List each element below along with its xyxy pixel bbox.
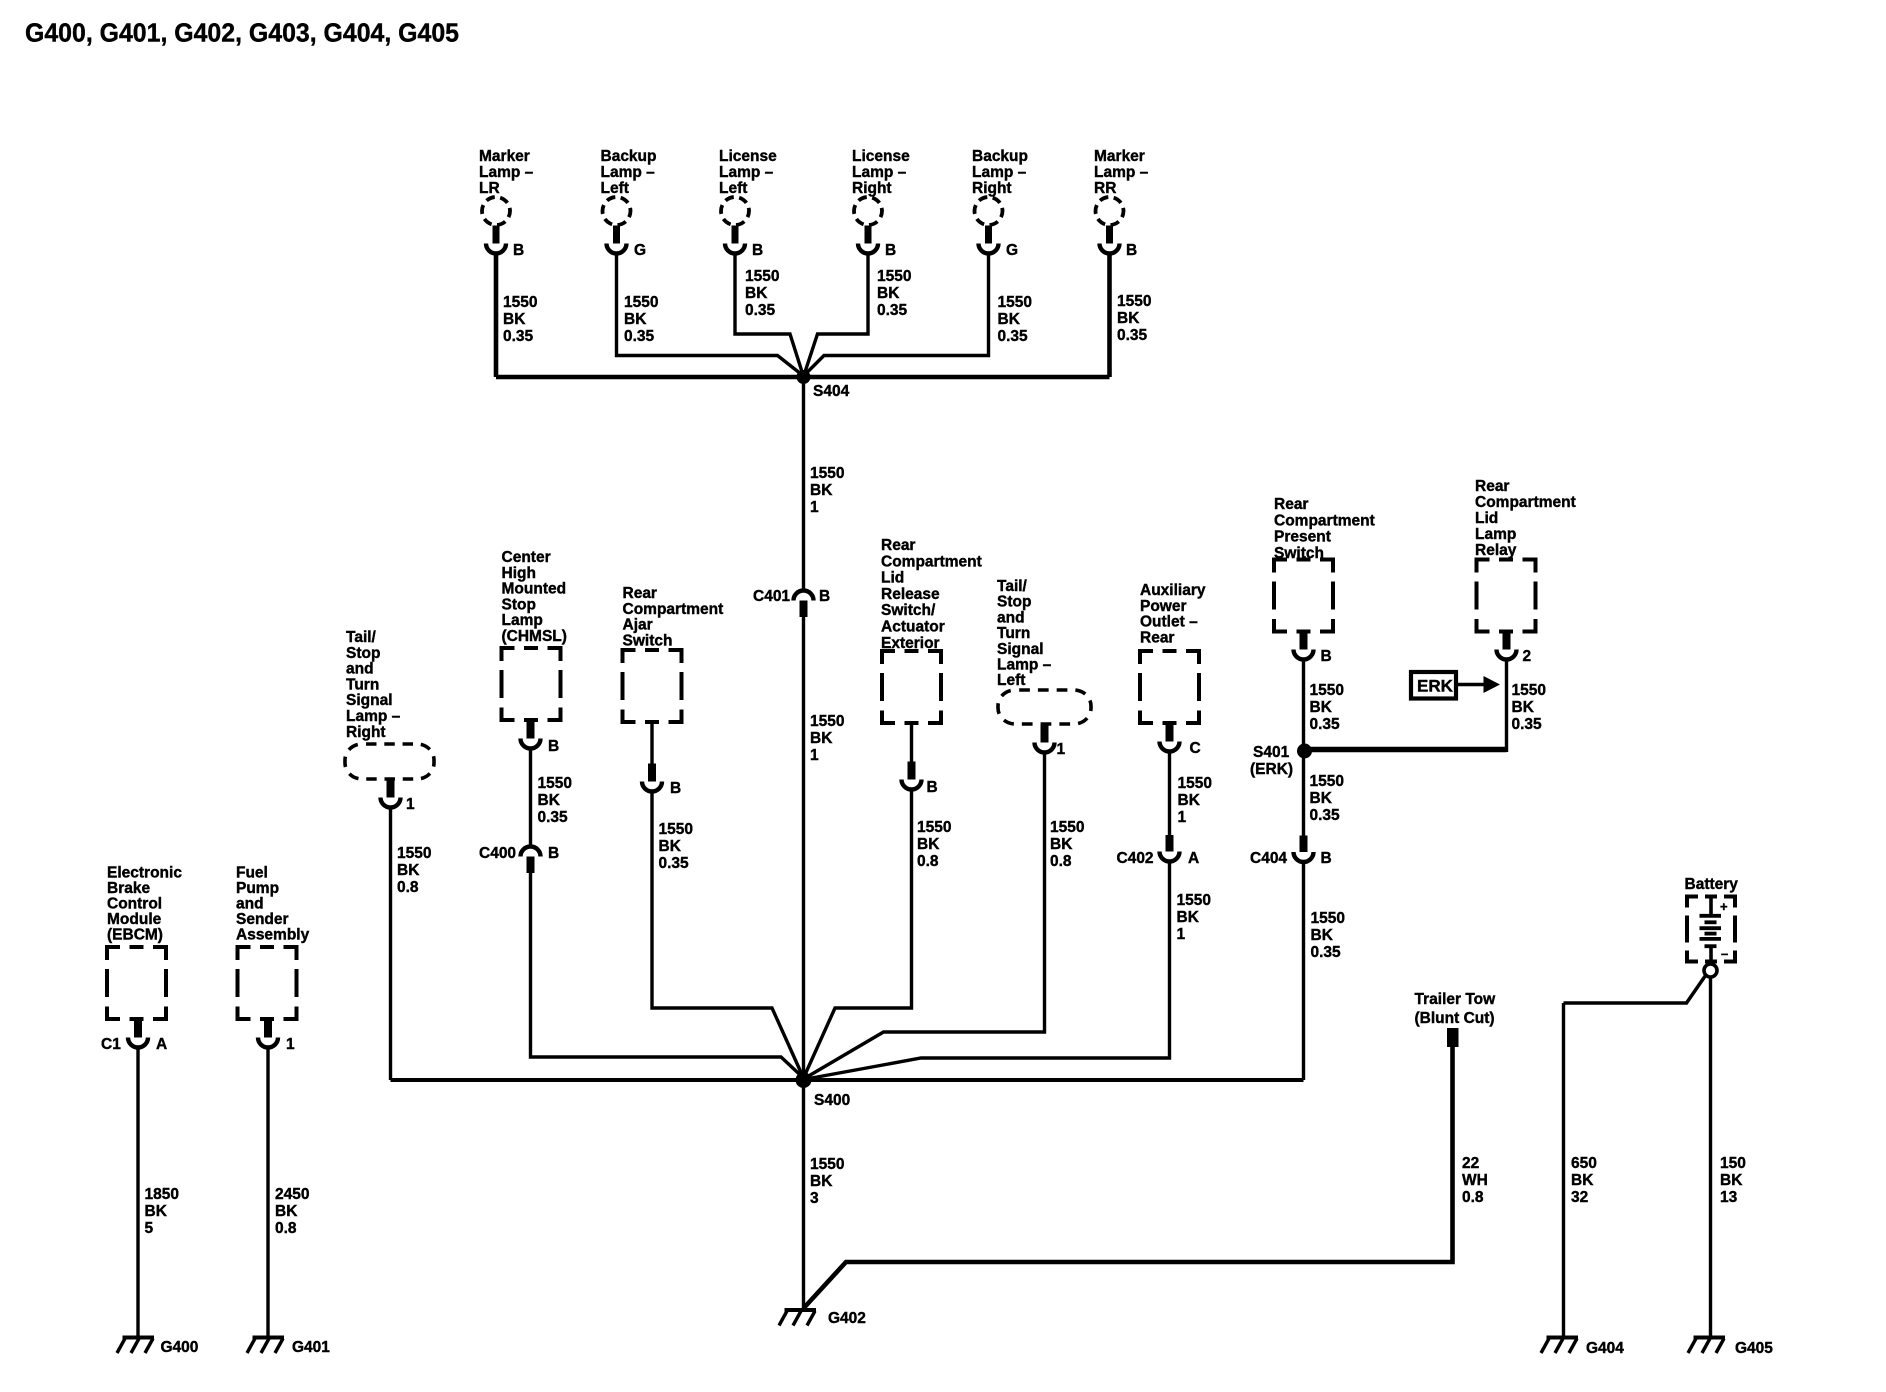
aux connector — [1160, 724, 1180, 752]
wire backup right to S404 — [804, 255, 989, 376]
svg-text:G402: G402 — [828, 1310, 866, 1327]
svg-text:B: B — [1321, 850, 1332, 867]
tail left connector — [1035, 725, 1055, 753]
battery terminal ring — [1704, 964, 1717, 977]
svg-text:A: A — [1188, 850, 1199, 867]
battery top lead — [1709, 896, 1713, 914]
wire C400 to S400 — [531, 873, 804, 1078]
svg-text:1: 1 — [286, 1036, 295, 1053]
wire relay down — [1505, 660, 1508, 752]
EBCM connector — [128, 1020, 148, 1048]
splice S401 — [1297, 744, 1312, 759]
splice S400 — [796, 1072, 812, 1088]
svg-text:G: G — [1006, 242, 1018, 259]
trailer tow blunt cut terminal — [1447, 1028, 1459, 1047]
svg-text:C402: C402 — [1117, 850, 1154, 867]
lid release connector — [902, 762, 922, 790]
wire fuel pump to G401 — [266, 1048, 269, 1336]
wire S400 to G402 — [802, 1080, 805, 1308]
svg-text:B: B — [513, 242, 524, 259]
svg-text:G400, G401, G402, G403, G404,: G400, G401, G402, G403, G404, G405 — [25, 18, 459, 48]
wire tail right to S400 — [389, 808, 392, 1080]
wire backup left to S404 — [617, 255, 804, 376]
svg-text:B: B — [670, 780, 681, 797]
battery plate long 2 — [1700, 926, 1722, 930]
fuel pump connector — [258, 1020, 278, 1048]
ground G400 — [117, 1338, 154, 1354]
CHMSL body (dashed box) — [502, 648, 561, 720]
connector C401 — [794, 591, 814, 618]
svg-text:B: B — [1126, 242, 1137, 259]
svg-text:1: 1 — [406, 796, 415, 813]
svg-text:G404: G404 — [1586, 1340, 1624, 1357]
ajar connector — [642, 764, 662, 792]
ground G405 — [1688, 1338, 1725, 1354]
svg-text:S400: S400 — [814, 1092, 850, 1109]
wire trailer tow to G402 — [804, 1047, 1453, 1308]
wire C402 to S400 — [804, 862, 1170, 1080]
svg-text:G400: G400 — [161, 1339, 199, 1356]
wire S401 to relay (thick) — [1305, 747, 1507, 753]
svg-text:+: + — [1720, 899, 1728, 914]
svg-text:C401: C401 — [753, 588, 790, 605]
connector C404 — [1294, 836, 1314, 863]
svg-text:2: 2 — [1523, 648, 1532, 665]
wire battery to 650 drop — [1564, 976, 1706, 1004]
wire marker LR to S404 (thick) — [494, 255, 499, 377]
wire C404 to S400 bus — [1302, 863, 1305, 1081]
wire ajar to S400 — [652, 792, 804, 1078]
wire EBCM to G400 — [136, 1048, 139, 1336]
svg-text:B: B — [927, 779, 938, 796]
lid lamp relay body (dashed box) — [1477, 560, 1536, 632]
ground G401 — [247, 1338, 284, 1354]
tail right connector — [381, 780, 401, 808]
battery plate short 1 — [1705, 920, 1717, 924]
ground G402 — [779, 1310, 816, 1326]
svg-text:B: B — [548, 738, 559, 755]
svg-text:1: 1 — [1057, 741, 1066, 758]
wire ajar stub — [650, 722, 653, 765]
backup lamp left symbol — [603, 197, 631, 254]
marker lamp LR symbol — [482, 197, 510, 254]
ERK box — [1411, 672, 1456, 699]
battery plate short 2 — [1705, 932, 1717, 936]
wire tail left to S400 — [804, 753, 1045, 1079]
wire license left to S404 — [735, 255, 804, 377]
wire present switch to S401 — [1302, 660, 1305, 751]
svg-text:B: B — [1321, 648, 1332, 665]
svg-text:C404: C404 — [1250, 850, 1287, 867]
svg-text:S404: S404 — [813, 383, 850, 400]
present switch body (dashed box) — [1274, 560, 1333, 632]
wire C401 to S400 — [802, 617, 805, 1080]
wire top bus horizontal (thick) — [496, 375, 1110, 380]
wire S401 to C404 — [1302, 751, 1305, 836]
svg-text:A: A — [156, 1036, 167, 1053]
wire aux to C402 — [1168, 752, 1171, 836]
wire 650 BK 32 to G404 — [1562, 1003, 1565, 1336]
svg-text:G401: G401 — [292, 1339, 330, 1356]
ERK arrow — [1458, 683, 1487, 687]
svg-text:B: B — [752, 242, 763, 259]
CHMSL connector — [521, 721, 541, 749]
svg-text:C1: C1 — [101, 1036, 121, 1053]
battery plate short 3 — [1705, 944, 1717, 948]
svg-text:Battery: Battery — [1685, 876, 1739, 893]
svg-text:ERK: ERK — [1417, 677, 1454, 696]
wire lid release to S400 — [804, 790, 912, 1078]
relay connector — [1497, 632, 1517, 660]
aux power outlet body (dashed box) — [1140, 651, 1199, 723]
svg-text:G405: G405 — [1735, 1340, 1773, 1357]
wire lid release stub — [910, 723, 913, 762]
svg-text:–: – — [1721, 946, 1728, 961]
battery plate long 1 — [1700, 914, 1722, 918]
marker lamp RR symbol — [1096, 197, 1124, 254]
present switch connector — [1294, 632, 1314, 660]
EBCM body (dashed box) — [107, 947, 166, 1019]
wire 150 BK 13 to G405 — [1709, 978, 1712, 1337]
svg-text:B: B — [885, 242, 896, 259]
battery plate long 3 — [1700, 937, 1722, 941]
ground G404 — [1541, 1338, 1578, 1354]
license lamp left symbol — [721, 197, 749, 254]
svg-text:B: B — [819, 588, 830, 605]
connector C400 — [521, 847, 541, 874]
tail/stop turn lamp right body (dashed oval) — [345, 744, 434, 779]
fuel pump body (dashed box) — [238, 947, 297, 1019]
svg-text:(ERK): (ERK) — [1250, 761, 1293, 778]
svg-text:C400: C400 — [479, 845, 516, 862]
wire S400 bus horizontal — [391, 1078, 1304, 1082]
connector C402 — [1160, 835, 1180, 862]
ajar switch body (dashed box) — [623, 650, 682, 722]
battery body (dashed box) — [1687, 897, 1735, 962]
wire license right to S404 — [804, 255, 869, 377]
backup lamp right symbol — [975, 197, 1003, 254]
battery bottom lead — [1709, 948, 1713, 964]
svg-text:C: C — [1190, 740, 1201, 757]
svg-text:S401: S401 — [1253, 744, 1290, 761]
license lamp right symbol — [854, 197, 882, 254]
tail/stop turn lamp left body (dashed oval) — [998, 690, 1091, 724]
wire S404 to C401 — [802, 382, 805, 590]
wire CHMSL to C400 — [529, 749, 532, 846]
lid release body (dashed box) — [882, 651, 941, 723]
svg-text:B: B — [548, 845, 559, 862]
wire marker RR to S404 (thick) — [1107, 255, 1112, 377]
svg-text:G: G — [634, 242, 646, 259]
splice S404 — [797, 370, 811, 384]
